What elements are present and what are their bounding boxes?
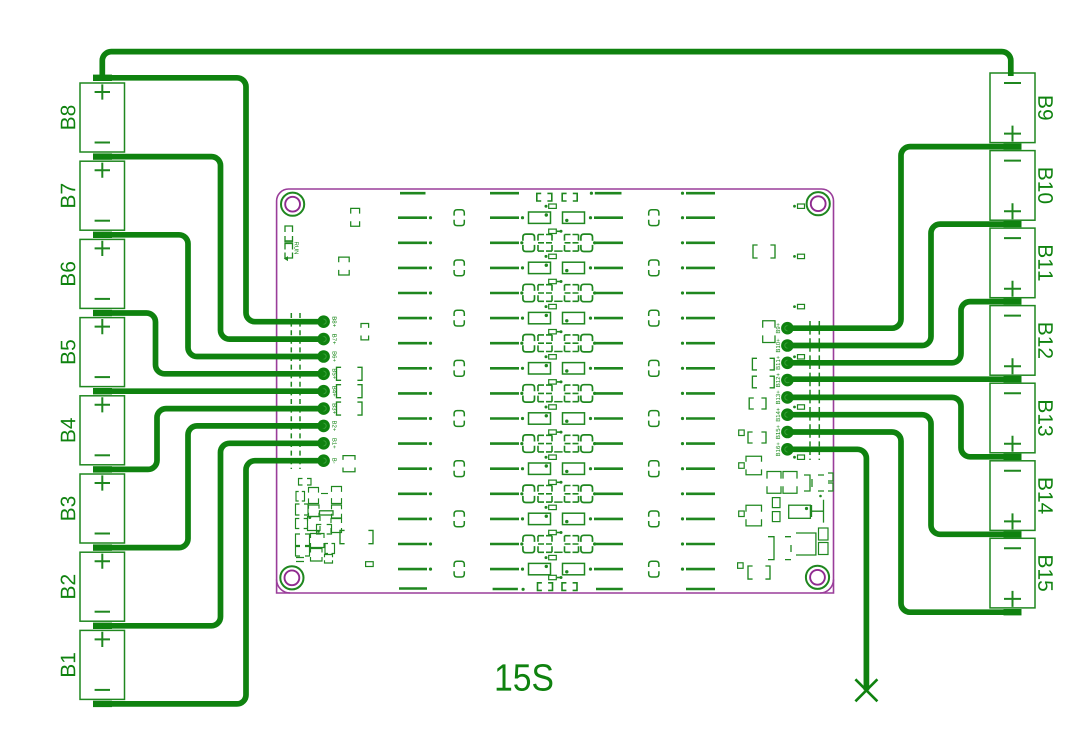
silk bracket footprint right top <box>753 245 775 258</box>
wire junction B9+ to pad B9+ <box>787 147 1012 329</box>
RUN switch footprint <box>284 226 299 261</box>
silk row y=368 type A <box>398 360 715 376</box>
silk bracket footprint left near pads B5+ <box>337 367 363 380</box>
pad B- <box>317 454 336 467</box>
junction B15+ (right) <box>1004 609 1022 615</box>
silk row y=243 type B <box>398 234 715 251</box>
junction B7+ (left) <box>93 153 112 159</box>
wire junction B- to pad B- <box>102 461 323 704</box>
silk bracket footprint left near pad B- <box>343 456 355 472</box>
silk bracket pair right of cluster <box>340 530 373 543</box>
silk row y=418 type A <box>398 411 715 427</box>
battery B3 <box>61 474 125 543</box>
battery B7 <box>61 161 125 230</box>
silk row y=218 type A <box>398 210 715 226</box>
junction B11+ (right) <box>1004 298 1022 304</box>
junction B1+ (left) <box>93 623 112 629</box>
wire junction B3+ to pad B3+ <box>102 409 323 470</box>
pad B13+ <box>776 391 794 404</box>
pad B14+ <box>776 408 794 421</box>
mounting hole bottom-right <box>806 566 829 589</box>
silk row y=494 type B <box>398 485 715 502</box>
junction B6+ (left) <box>93 232 112 238</box>
silk dashed lines right connector <box>810 321 819 460</box>
junction B8+ (left) <box>93 75 112 81</box>
silk bracket footprint left 3 <box>361 324 369 340</box>
wire junction B5+ to pad B5+ <box>102 313 323 374</box>
junction B4+ (left) <box>93 388 112 394</box>
silk bracket footprint right near pads 3 <box>749 398 766 409</box>
pad B2+ <box>317 420 336 433</box>
silk bracket footprint left 1 <box>351 208 360 226</box>
wire junction B10+ to pad B10+ <box>787 224 1012 345</box>
battery B11 <box>990 228 1053 298</box>
battery B2 <box>61 552 125 621</box>
battery B8 <box>61 83 125 152</box>
mounting hole bottom-left <box>280 566 303 589</box>
pad B6+ <box>317 350 336 363</box>
pad B16+ <box>776 443 794 456</box>
pad B9+ <box>776 322 794 335</box>
pad B12+ <box>776 373 794 386</box>
silk row y=268 type A <box>398 260 715 276</box>
silk row y=343 type B <box>398 335 715 352</box>
pad B4+ <box>317 385 336 398</box>
junction B2+ (left) <box>93 544 112 550</box>
wire junction B4+ to pad B4+ <box>102 388 323 394</box>
wire junction B13+ to pad B13+ <box>787 397 1012 456</box>
wire junction B15+ to pad B15+ <box>787 432 1012 612</box>
junction B5+ (left) <box>93 310 112 316</box>
silk bracket footprint right near pads 2 <box>752 376 774 388</box>
battery B12 <box>990 306 1053 376</box>
silk component cluster bottom-left <box>296 479 342 564</box>
silk row y=544 type B <box>398 535 715 552</box>
battery B6 <box>61 239 125 308</box>
junction B14+ (right) <box>1004 531 1022 537</box>
junction B- (left) <box>93 701 112 707</box>
silk tiny square right of cluster <box>366 562 374 567</box>
silk row y=318 type A <box>398 310 715 326</box>
battery B15 <box>990 538 1053 608</box>
pad B1+ <box>317 437 336 450</box>
battery B13 <box>990 383 1053 453</box>
mounting hole top-right <box>807 192 830 215</box>
silk row bottom partial <box>399 583 715 591</box>
silk component cluster bottom-right <box>738 456 833 579</box>
junction B12+ (right) <box>1004 376 1022 382</box>
pad B10+ <box>776 339 794 352</box>
pad B11+ <box>776 356 794 369</box>
wire junction B6+ to pad B6+ <box>102 235 323 357</box>
silk small marks near right pads <box>793 204 804 459</box>
battery B10 <box>990 151 1053 221</box>
junction B10+ (right) <box>1004 221 1022 227</box>
no-connect X mark <box>855 679 877 701</box>
silk bracket footprint right near pads B9/B10 <box>763 321 775 343</box>
silk centre marks column <box>545 204 563 580</box>
wire pad B16+ to no-connect <box>787 449 866 690</box>
silk bracket footprint right near pads 1 <box>752 358 774 370</box>
silk row y=444 type B <box>398 435 715 452</box>
wire junction B8+ to pad B8+ <box>102 78 323 322</box>
silk row y=293 type B <box>398 284 715 301</box>
junction B3+ (left) <box>93 466 112 472</box>
wire junction B14+ to pad B14+ <box>787 415 1012 535</box>
text 15S <box>497 664 553 691</box>
battery B1 <box>61 630 125 699</box>
silk dashed lines left connector <box>291 313 300 469</box>
wire junction B7+ to pad B7+ <box>102 157 323 340</box>
battery B9 <box>990 73 1053 143</box>
silk row y=469 type A <box>398 461 715 477</box>
pcb board outline <box>277 189 834 593</box>
pad B8+ <box>317 315 336 328</box>
silk bracket footprint left 2 <box>339 257 350 275</box>
junction B13+ (right) <box>1004 454 1022 460</box>
silk row y=393 type B <box>398 385 715 402</box>
pad B5+ <box>317 368 336 381</box>
wire junction B12+ to pad B12+ <box>787 376 1012 382</box>
silk row y=569 type A <box>398 561 715 577</box>
silk row top partial <box>400 192 715 201</box>
battery B5 <box>61 318 125 387</box>
wire junction B1+ to pad B1+ <box>102 443 323 626</box>
wire junction B2+ to pad B2+ <box>102 426 323 548</box>
wire junction B11+ to pad B11+ <box>787 302 1012 363</box>
battery B4 <box>61 396 125 465</box>
battery B14 <box>990 461 1053 531</box>
silk bracket footprint left near pads B4+ <box>337 385 363 398</box>
board corner arc bottom-right <box>820 580 834 594</box>
pad B7+ <box>317 333 336 346</box>
silk tiny bits right near pads 4 <box>739 430 745 436</box>
silk bracket footprint left near pads B3+ <box>337 402 363 415</box>
pad B3+ <box>317 402 336 415</box>
mounting hole top-left <box>281 193 304 216</box>
silk row y=519 type A <box>398 511 715 527</box>
wire top rail B8+ to B9- <box>102 52 1011 78</box>
pad B15+ <box>776 425 794 438</box>
junction B9+ (right) <box>1004 143 1022 149</box>
board corner arc bottom-left <box>277 580 291 594</box>
